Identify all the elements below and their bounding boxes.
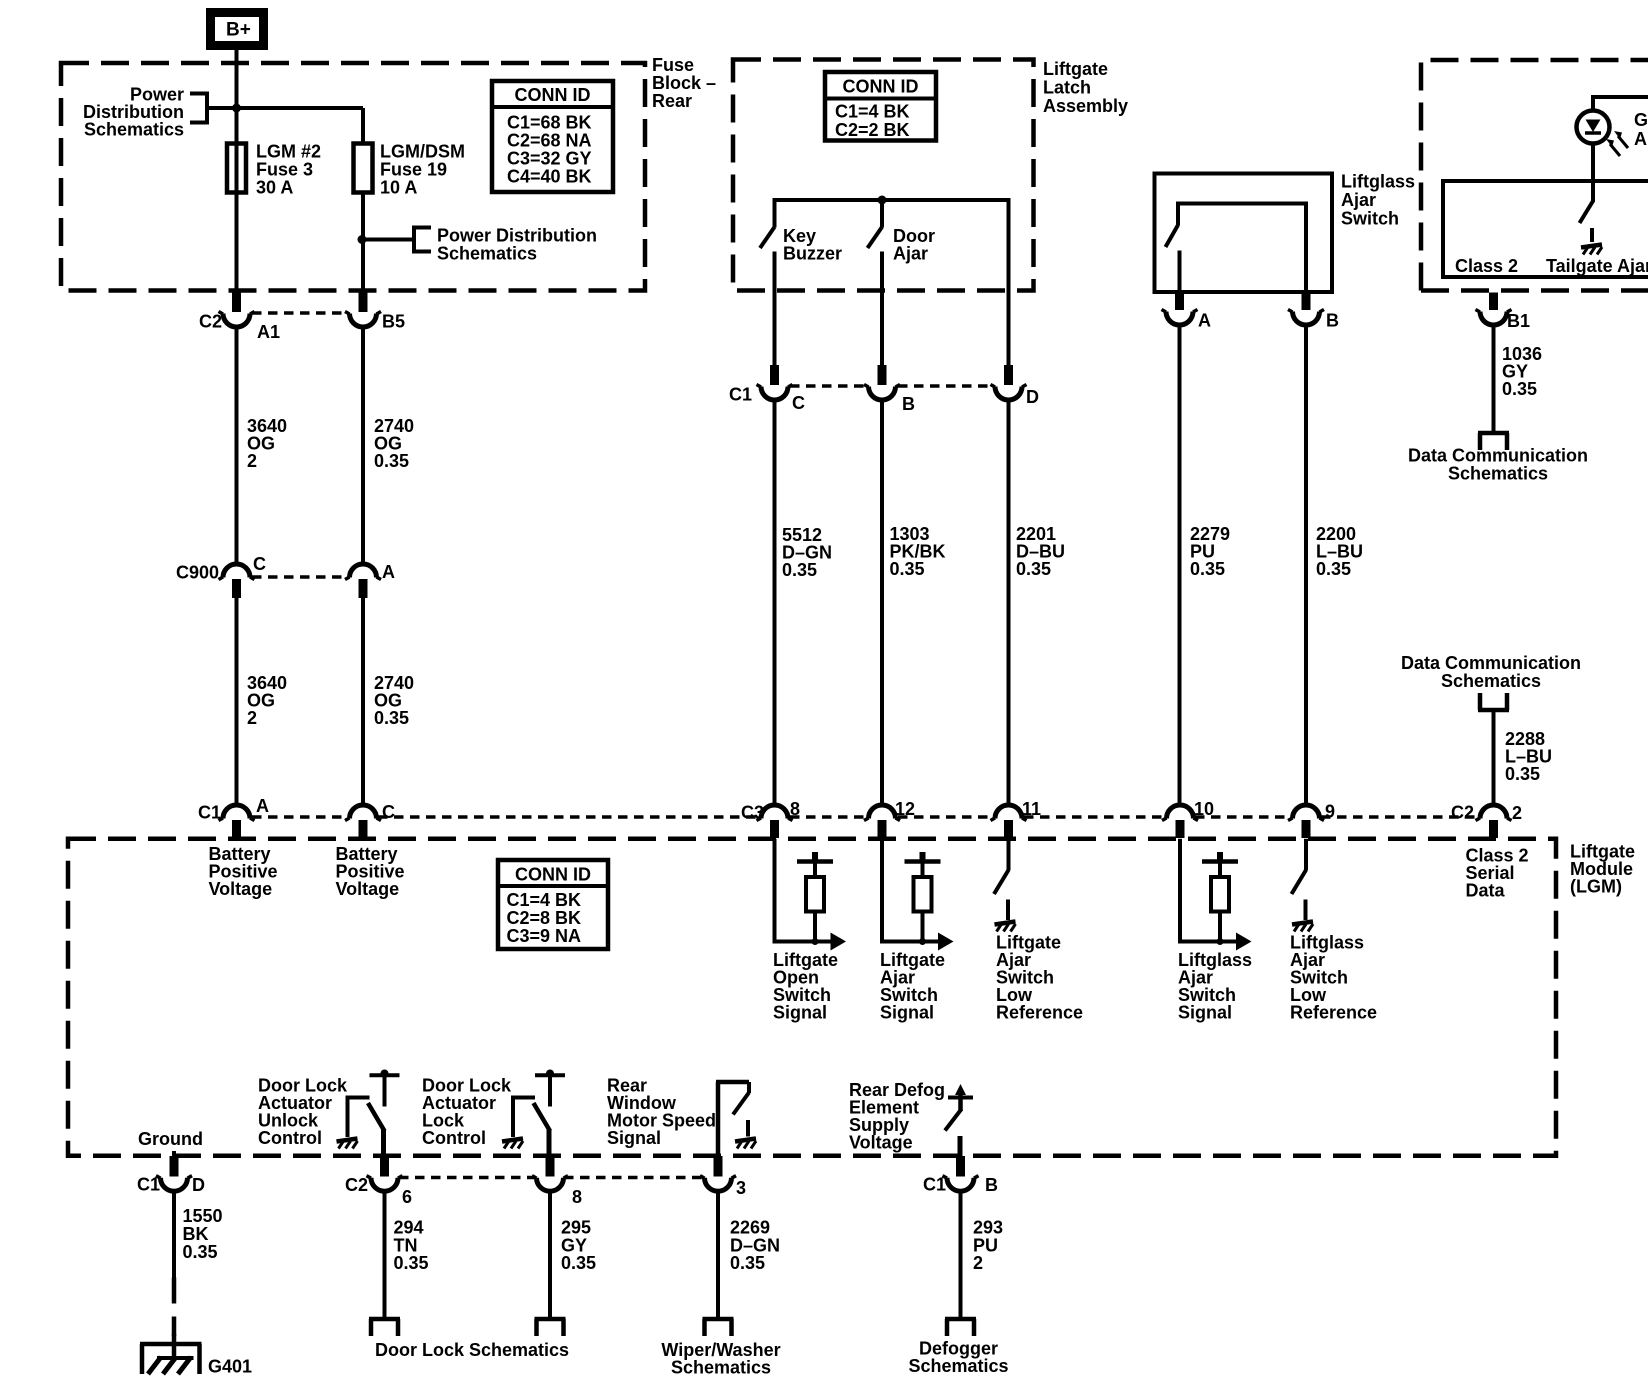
svg-text:Assembly: Assembly [1043, 96, 1128, 116]
svg-text:9: 9 [1325, 802, 1335, 822]
svg-text:B: B [902, 394, 915, 414]
svg-text:Switch: Switch [1341, 209, 1399, 229]
svg-text:Voltage: Voltage [336, 879, 400, 899]
svg-text:0.35: 0.35 [890, 559, 925, 579]
svg-text:Class 2: Class 2 [1455, 256, 1518, 276]
svg-text:G401: G401 [208, 1357, 252, 1377]
svg-text:Signal: Signal [880, 1003, 934, 1023]
svg-text:10 A: 10 A [380, 178, 417, 198]
svg-text:B+: B+ [226, 20, 251, 41]
svg-text:C: C [382, 802, 395, 822]
svg-text:Schematics: Schematics [437, 244, 537, 264]
svg-text:(LGM): (LGM) [1570, 877, 1622, 897]
svg-text:11: 11 [1022, 799, 1041, 819]
svg-text:8: 8 [790, 799, 800, 819]
svg-text:Latch: Latch [1043, 78, 1091, 98]
svg-text:C4=40 BK: C4=40 BK [507, 167, 592, 187]
svg-text:Ajar: Ajar [1341, 190, 1376, 210]
svg-text:Power Distribution: Power Distribution [437, 226, 597, 246]
svg-text:C1=68 BK: C1=68 BK [507, 113, 592, 133]
svg-text:0.35: 0.35 [374, 708, 409, 728]
svg-text:G: G [1634, 110, 1648, 130]
svg-text:C3=32 GY: C3=32 GY [507, 149, 592, 169]
svg-text:0.35: 0.35 [1316, 559, 1351, 579]
svg-text:8: 8 [572, 1187, 582, 1207]
svg-text:0.35: 0.35 [394, 1253, 429, 1273]
svg-text:2: 2 [247, 708, 257, 728]
svg-text:CONN ID: CONN ID [515, 865, 591, 885]
svg-text:B: B [985, 1175, 998, 1195]
svg-text:Schematics: Schematics [84, 120, 184, 140]
svg-text:LGM/DSM: LGM/DSM [380, 142, 465, 162]
svg-text:C2: C2 [199, 312, 222, 332]
svg-text:Signal: Signal [1178, 1003, 1232, 1023]
svg-text:Tailgate Ajar: Tailgate Ajar [1546, 256, 1648, 276]
svg-text:D: D [192, 1175, 205, 1195]
svg-text:Fuse 3: Fuse 3 [256, 160, 313, 180]
svg-text:Signal: Signal [773, 1003, 827, 1023]
svg-text:Fuse: Fuse [652, 55, 694, 75]
svg-text:0.35: 0.35 [374, 451, 409, 471]
svg-text:0.35: 0.35 [1190, 559, 1225, 579]
svg-text:LGM #2: LGM #2 [256, 142, 321, 162]
svg-text:0.35: 0.35 [1505, 764, 1540, 784]
svg-text:Door Lock Schematics: Door Lock Schematics [375, 1340, 569, 1360]
svg-text:Signal: Signal [607, 1128, 661, 1148]
svg-text:A1: A1 [257, 322, 280, 342]
svg-text:Buzzer: Buzzer [783, 244, 842, 264]
svg-text:Fuse 19: Fuse 19 [380, 160, 447, 180]
svg-text:C1: C1 [137, 1175, 160, 1195]
svg-text:30 A: 30 A [256, 178, 293, 198]
svg-text:BK: BK [183, 1224, 209, 1244]
svg-text:C1: C1 [729, 385, 752, 405]
svg-text:2: 2 [1512, 803, 1522, 823]
svg-text:Control: Control [422, 1128, 486, 1148]
svg-text:Rear: Rear [652, 91, 692, 111]
svg-text:0.35: 0.35 [730, 1253, 765, 1273]
svg-text:C2: C2 [345, 1175, 368, 1195]
svg-text:B5: B5 [382, 312, 405, 332]
svg-text:Block –: Block – [652, 73, 716, 93]
svg-text:C2: C2 [1451, 803, 1474, 823]
svg-text:Liftglass: Liftglass [1341, 172, 1415, 192]
svg-text:0.35: 0.35 [183, 1242, 218, 1262]
svg-text:Schematics: Schematics [671, 1358, 771, 1378]
svg-text:Voltage: Voltage [849, 1133, 913, 1153]
svg-text:10: 10 [1194, 799, 1214, 819]
svg-text:0.35: 0.35 [1016, 559, 1051, 579]
svg-text:Ajar: Ajar [893, 244, 928, 264]
svg-text:C1=4 BK: C1=4 BK [507, 890, 582, 910]
svg-text:Schematics: Schematics [1448, 464, 1548, 484]
svg-text:C3: C3 [741, 803, 764, 823]
svg-text:A: A [1634, 129, 1647, 149]
svg-text:B1: B1 [1507, 311, 1530, 331]
svg-text:C2=2 BK: C2=2 BK [835, 120, 910, 140]
svg-text:C3=9 NA: C3=9 NA [507, 926, 582, 946]
svg-text:C: C [792, 393, 805, 413]
svg-text:CONN ID: CONN ID [843, 77, 919, 97]
svg-text:0.35: 0.35 [782, 560, 817, 580]
svg-text:A: A [1198, 311, 1211, 331]
svg-text:Data Communication: Data Communication [1408, 446, 1588, 466]
svg-text:C1: C1 [923, 1175, 946, 1195]
svg-text:0.35: 0.35 [561, 1253, 596, 1273]
svg-text:C2=8 BK: C2=8 BK [507, 908, 582, 928]
svg-text:A: A [382, 562, 395, 582]
svg-text:12: 12 [895, 799, 915, 819]
svg-text:Voltage: Voltage [209, 879, 273, 899]
svg-text:2: 2 [973, 1253, 983, 1273]
svg-text:C: C [253, 554, 266, 574]
svg-text:CONN ID: CONN ID [515, 85, 591, 105]
svg-text:A: A [256, 796, 269, 816]
svg-text:Reference: Reference [1290, 1003, 1377, 1023]
svg-text:Data Communication: Data Communication [1401, 653, 1581, 673]
svg-text:3: 3 [736, 1178, 746, 1198]
svg-text:Reference: Reference [996, 1003, 1083, 1023]
svg-text:6: 6 [402, 1187, 412, 1207]
svg-text:Data: Data [1466, 881, 1506, 901]
svg-text:B: B [1326, 311, 1339, 331]
svg-text:Liftgate: Liftgate [1043, 59, 1108, 79]
svg-text:Schematics: Schematics [1441, 671, 1541, 691]
svg-text:C1: C1 [198, 803, 221, 823]
svg-text:D: D [1026, 387, 1039, 407]
svg-text:0.35: 0.35 [1502, 379, 1537, 399]
svg-text:Schematics: Schematics [908, 1356, 1008, 1376]
svg-text:Ground: Ground [138, 1129, 203, 1149]
svg-text:C2=68 NA: C2=68 NA [507, 131, 592, 151]
svg-text:C900: C900 [176, 563, 219, 583]
svg-text:1550: 1550 [183, 1206, 223, 1226]
svg-text:C1=4 BK: C1=4 BK [835, 102, 910, 122]
svg-text:2: 2 [247, 451, 257, 471]
svg-text:Control: Control [258, 1128, 322, 1148]
